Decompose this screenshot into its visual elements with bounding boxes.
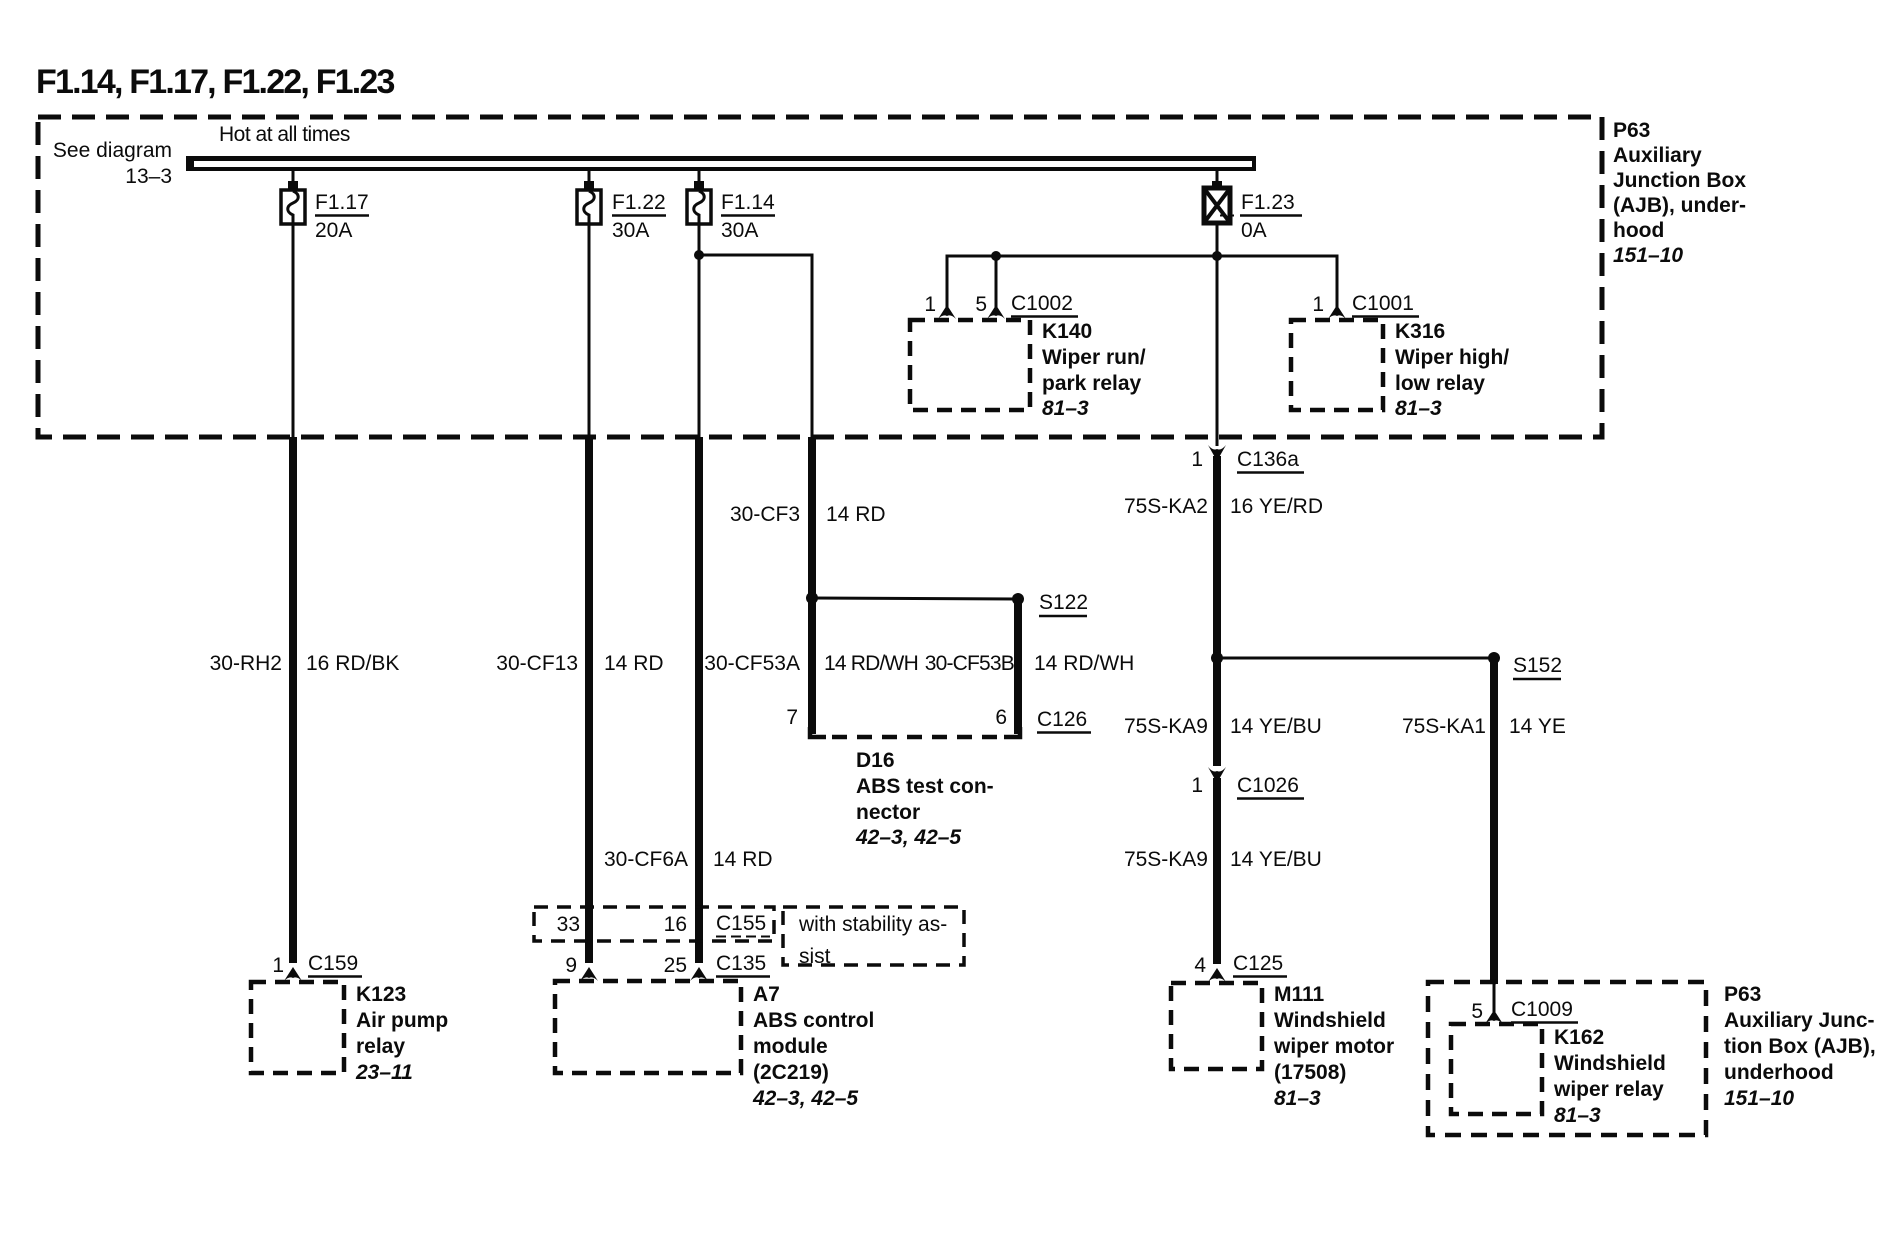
connector C159 (arrow up into K123): [284, 967, 302, 981]
wire 30-CF53B (thick) S122 to D16 pin 6: [1014, 599, 1022, 734]
wire: feeder drop to K140 pin 5: [995, 256, 998, 312]
svg-text:75S-KA1: 75S-KA1: [1402, 715, 1486, 738]
svg-text:14 YE/BU: 14 YE/BU: [1230, 848, 1322, 871]
svg-text:14 YE: 14 YE: [1509, 715, 1566, 738]
label P63 Auxiliary Junction Box (AJB), underhood 151-10 (top right): [1613, 119, 1746, 267]
splice S152 junction dot right: [1488, 652, 1500, 664]
P63 Auxiliary Junction Box (AJB) outline (bottom right): [1428, 982, 1706, 1135]
svg-text:14 RD: 14 RD: [826, 503, 886, 526]
value label F1.23 0A: [1220, 191, 1302, 242]
svg-text:16: 16: [664, 913, 687, 936]
svg-text:33: 33: [557, 913, 580, 936]
connector C1001: [1352, 292, 1419, 317]
wire: relay feeder to K140 pin 1: [947, 256, 1337, 312]
svg-text:1: 1: [272, 954, 284, 977]
svg-text:Auxiliary Junc-: Auxiliary Junc-: [1724, 1009, 1875, 1032]
splice S122 junction dot right: [1012, 593, 1024, 605]
wire 30-CF13 (thick) F1.22 to A7 pin 9: [585, 437, 593, 963]
svg-text:ABS control: ABS control: [753, 1009, 874, 1032]
label A7 ABS control module (2C219) 42-3, 42-5: [752, 983, 874, 1110]
svg-text:C1001: C1001: [1352, 292, 1414, 315]
svg-text:Air pump: Air pump: [356, 1009, 448, 1032]
svg-text:6: 6: [995, 706, 1007, 729]
svg-text:S122: S122: [1039, 591, 1088, 614]
svg-text:30-RH2: 30-RH2: [210, 652, 282, 675]
note box: with stability assist: [783, 907, 964, 965]
svg-text:C155: C155: [716, 912, 766, 935]
svg-text:1: 1: [1191, 448, 1203, 471]
svg-text:K123: K123: [356, 983, 406, 1006]
svg-text:30A: 30A: [612, 219, 649, 242]
svg-text:14 YE/BU: 14 YE/BU: [1230, 715, 1322, 738]
svg-text:30-CF53A: 30-CF53A: [704, 652, 800, 675]
terminal square at F1.17: [288, 181, 298, 190]
fuse F1.17: [281, 190, 305, 224]
svg-text:1: 1: [1191, 774, 1203, 797]
connector D16 ABS test connector (dashed edge): [810, 727, 1020, 737]
svg-text:F1.14, F1.17, F1.22, F1.23: F1.14, F1.17, F1.22, F1.23: [36, 63, 395, 101]
svg-text:F1.22: F1.22: [612, 191, 666, 214]
terminal square at F1.14: [694, 181, 704, 190]
svg-text:tion Box (AJB),: tion Box (AJB),: [1724, 1035, 1876, 1058]
svg-text:30-CF13: 30-CF13: [496, 652, 578, 675]
svg-text:F1.14: F1.14: [721, 191, 775, 214]
value label F1.17 20A: [315, 191, 369, 242]
svg-text:K140: K140: [1042, 320, 1092, 343]
svg-text:Windshield: Windshield: [1554, 1052, 1666, 1075]
circuit breaker F1.23 (box with X): [1204, 188, 1230, 223]
svg-text:14 RD/WH: 14 RD/WH: [1034, 652, 1134, 675]
svg-text:30-CF6A: 30-CF6A: [604, 848, 688, 871]
svg-text:underhood: underhood: [1724, 1061, 1834, 1084]
svg-text:relay: relay: [356, 1035, 405, 1058]
label K162 Windshield wiper relay 81-3: [1553, 1026, 1666, 1127]
svg-text:7: 7: [786, 706, 798, 729]
svg-text:42–3, 42–5: 42–3, 42–5: [855, 826, 961, 849]
svg-text:1: 1: [924, 293, 936, 316]
svg-text:P63: P63: [1613, 119, 1650, 142]
connector C136a (arrow down): [1208, 445, 1226, 461]
svg-text:16 RD/BK: 16 RD/BK: [306, 652, 399, 675]
junction dot feeder to K140 pin 5: [991, 251, 1001, 261]
svg-text:(AJB), under-: (AJB), under-: [1613, 194, 1746, 217]
svg-text:16 YE/RD: 16 YE/RD: [1230, 495, 1323, 518]
svg-text:75S-KA2: 75S-KA2: [1124, 495, 1208, 518]
wire: branch F1.14 junction to 30-CF3 drop: [699, 255, 812, 437]
svg-text:14 RD: 14 RD: [604, 652, 664, 675]
svg-text:14 RD: 14 RD: [713, 848, 773, 871]
label K123 Air pump relay 23-11: [355, 983, 448, 1084]
junction dot F1.23 / relay feeder: [1212, 251, 1222, 261]
svg-text:30-CF3: 30-CF3: [730, 503, 800, 526]
svg-text:30A: 30A: [721, 219, 758, 242]
fuse F1.22: [577, 190, 601, 224]
svg-text:20A: 20A: [315, 219, 352, 242]
svg-text:Windshield: Windshield: [1274, 1009, 1386, 1032]
svg-text:Wiper run/: Wiper run/: [1042, 346, 1146, 369]
svg-text:wiper relay: wiper relay: [1553, 1078, 1664, 1101]
wire: F1.17 down to AJB edge: [292, 224, 295, 437]
wire 30-CF53A (thick) to D16 pin 7: [808, 598, 816, 734]
wire: bus tap to fuse F1.22: [588, 168, 591, 183]
svg-text:module: module: [753, 1035, 828, 1058]
svg-text:K162: K162: [1554, 1026, 1604, 1049]
value label F1.14 30A: [721, 191, 775, 242]
connector C1026 (arrow down): [1208, 767, 1226, 783]
svg-text:C1026: C1026: [1237, 774, 1299, 797]
svg-text:C135: C135: [716, 952, 766, 975]
svg-text:1: 1: [1312, 293, 1324, 316]
connector C125 (arrow up into M111): [1208, 968, 1226, 982]
junction dot at F1.14 branch: [694, 250, 704, 260]
svg-text:park relay: park relay: [1042, 372, 1142, 395]
svg-text:D16: D16: [856, 749, 895, 772]
connector C1002: [1011, 292, 1078, 317]
wire 30-CF6A (thick) F1.14 to A7 pin 25: [695, 437, 703, 963]
svg-text:(2C219): (2C219): [753, 1061, 829, 1084]
svg-text:with stability as-: with stability as-: [798, 913, 947, 936]
svg-text:C126: C126: [1037, 708, 1087, 731]
connector C135 arrow up into A7 (pin 9): [580, 967, 598, 981]
wire 75S-KA2 (thick) C136a to splice S152: [1213, 456, 1221, 658]
svg-text:C136a: C136a: [1237, 448, 1299, 471]
terminal square at F1.22: [584, 181, 594, 190]
svg-text:S152: S152: [1513, 654, 1562, 677]
svg-text:81–3: 81–3: [1554, 1104, 1601, 1127]
svg-text:C1009: C1009: [1511, 998, 1573, 1021]
wire: bus tap to fuse F1.14: [698, 168, 701, 183]
splice S152 junction dot left: [1211, 652, 1223, 664]
motor M111 windshield wiper motor box: [1171, 983, 1262, 1069]
svg-text:hood: hood: [1613, 219, 1664, 242]
label M111 Windshield wiper motor (17508) 81-3: [1273, 983, 1394, 1110]
svg-text:151–10: 151–10: [1613, 244, 1683, 267]
svg-text:Wiper high/: Wiper high/: [1395, 346, 1509, 369]
wire 75S-KA1 (thick) S152 to P63 AJB: [1490, 658, 1498, 984]
wire: splice S122 tie line: [812, 598, 1018, 599]
svg-text:(17508): (17508): [1274, 1061, 1346, 1084]
fuse F1.14: [687, 190, 711, 224]
wire: F1.23 down to AJB edge: [1216, 223, 1219, 446]
svg-text:low relay: low relay: [1395, 372, 1485, 395]
svg-text:F1.23: F1.23: [1241, 191, 1295, 214]
svg-text:14 RD/WH: 14 RD/WH: [824, 652, 918, 675]
label D16 ABS test connector 42-3, 42-5: [855, 749, 994, 849]
label P63 Auxiliary Junction Box (AJB), underhood 151-10 (bottom right): [1724, 983, 1876, 1110]
module A7 ABS control module box: [555, 981, 741, 1073]
wire: F1.14 down to AJB edge: [698, 255, 701, 437]
svg-text:M111: M111: [1274, 983, 1325, 1006]
svg-text:75S-KA9: 75S-KA9: [1124, 848, 1208, 871]
splice S122 junction dot left: [806, 592, 818, 604]
wire: F1.14 down to junction: [698, 224, 701, 255]
svg-text:C159: C159: [308, 952, 358, 975]
svg-text:C1002: C1002: [1011, 292, 1073, 315]
terminal square at F1.23: [1212, 181, 1222, 190]
svg-text:C125: C125: [1233, 952, 1283, 975]
bus bar: hot at all times feed: [186, 156, 1256, 161]
svg-text:30-CF53B: 30-CF53B: [925, 652, 1014, 675]
relay K123 air pump relay box: [251, 982, 344, 1073]
relay K140 box: [910, 320, 1030, 410]
svg-text:sist: sist: [799, 945, 831, 968]
svg-text:9: 9: [565, 954, 577, 977]
svg-text:81–3: 81–3: [1042, 397, 1089, 420]
svg-text:ABS test con-: ABS test con-: [856, 775, 994, 798]
svg-text:A7: A7: [753, 983, 780, 1006]
svg-text:81–3: 81–3: [1274, 1087, 1321, 1110]
value label F1.22 30A: [612, 191, 666, 242]
wire 30-RH2 (thick) F1.17 to K123: [289, 437, 297, 963]
svg-text:151–10: 151–10: [1724, 1087, 1794, 1110]
connector C135 arrow up into A7 (pin 25): [690, 967, 708, 981]
svg-text:25: 25: [664, 954, 687, 977]
svg-text:23–11: 23–11: [355, 1061, 413, 1084]
connector C1009 (arrow up into K162): [1485, 1010, 1503, 1024]
relay K316 box: [1291, 320, 1383, 410]
P63 Auxiliary Junction Box (AJB) underhood outline (top): [38, 117, 1602, 437]
svg-text:81–3: 81–3: [1395, 397, 1442, 420]
node S152: [1513, 654, 1562, 679]
svg-text:Hot at all times: Hot at all times: [219, 123, 350, 146]
wire 75S-KA9 (thick) C1026 to M111 pin 4: [1213, 778, 1221, 964]
connector C126: [1037, 708, 1091, 733]
connector C155: [716, 912, 770, 937]
wire: bus tap to fuse F1.17: [292, 168, 295, 183]
svg-text:nector: nector: [856, 801, 920, 824]
wire: F1.22 down to AJB edge: [588, 224, 591, 437]
svg-text:wiper motor: wiper motor: [1273, 1035, 1394, 1058]
wire 75S-KA9 (thick) S152 to C1026: [1213, 658, 1221, 766]
connector C135: [716, 952, 770, 977]
svg-text:5: 5: [1471, 1000, 1483, 1023]
svg-text:P63: P63: [1724, 983, 1761, 1006]
svg-text:K316: K316: [1395, 320, 1445, 343]
svg-text:13–3: 13–3: [125, 165, 172, 188]
wire: splice S152 tie line: [1217, 657, 1494, 660]
wire: inside AJB down to K162 pin 5: [1493, 984, 1496, 1012]
svg-text:4: 4: [1194, 954, 1206, 977]
svg-text:75S-KA9: 75S-KA9: [1124, 715, 1208, 738]
svg-text:F1.17: F1.17: [315, 191, 369, 214]
relay K162 box: [1451, 1024, 1542, 1114]
svg-text:0A: 0A: [1241, 219, 1267, 242]
label K316 Wiper high/low relay 81-3: [1395, 320, 1509, 420]
connector C155 pass-through band: [534, 907, 774, 941]
svg-text:See diagram: See diagram: [53, 139, 172, 162]
label K140 Wiper run/park relay 81-3: [1042, 320, 1146, 420]
svg-text:5: 5: [975, 293, 987, 316]
node S122: [1039, 591, 1088, 616]
wire 30-CF3 (thick) branch to splice S122: [808, 437, 816, 598]
svg-text:42–3, 42–5: 42–3, 42–5: [752, 1087, 858, 1110]
svg-text:Auxiliary: Auxiliary: [1613, 144, 1702, 167]
svg-text:Junction Box: Junction Box: [1613, 169, 1746, 192]
wire: bus tap to breaker F1.23: [1216, 168, 1219, 183]
